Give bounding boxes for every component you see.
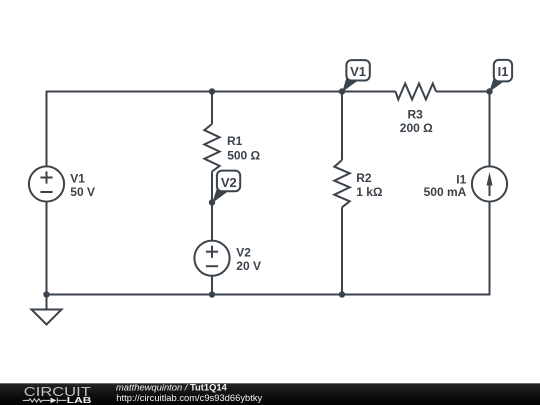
svg-text:20 V: 20 V <box>236 259 261 273</box>
footer credit text <box>116 381 263 403</box>
footer bar <box>0 383 540 405</box>
junction node V2 flag <box>209 199 215 205</box>
svg-text:V2: V2 <box>221 175 237 190</box>
svg-text:50 V: 50 V <box>70 185 95 199</box>
svg-text:500 Ω: 500 Ω <box>227 148 260 162</box>
svg-text:matthewquinton / Tut1Q14: matthewquinton / Tut1Q14 <box>116 381 228 392</box>
svg-text:LAB: LAB <box>67 396 92 405</box>
svg-text:1 kΩ: 1 kΩ <box>356 185 383 199</box>
wire left rail lower <box>46 202 48 295</box>
svg-text:500 mA: 500 mA <box>424 185 467 199</box>
svg-text:R2: R2 <box>356 171 372 185</box>
junction node top R2 / flag V1 <box>339 88 345 94</box>
voltage source V2 <box>194 241 229 276</box>
svg-text:V1: V1 <box>350 64 366 79</box>
svg-text:I1: I1 <box>498 64 509 79</box>
wire middle rail upper <box>211 92 213 125</box>
junction node bottom left ground <box>43 291 49 297</box>
svg-text:R1: R1 <box>227 134 243 148</box>
voltage source V1 <box>29 166 64 201</box>
ground <box>32 295 62 325</box>
svg-text:200 Ω: 200 Ω <box>400 121 433 135</box>
wire right rail lower and bottom rail <box>47 202 490 295</box>
svg-text:V2: V2 <box>236 246 251 260</box>
junction node top middle <box>209 88 215 94</box>
svg-text:V1: V1 <box>70 172 85 186</box>
junction node bottom R2 <box>339 291 345 297</box>
node flag V2 <box>212 171 240 203</box>
wire middle rail lower <box>211 276 213 295</box>
wire R2 rail lower <box>341 207 343 294</box>
junction node top right / flag I1 <box>486 88 492 94</box>
svg-text:http://circuitlab.com/c9s93d66: http://circuitlab.com/c9s93d66ybtky <box>116 392 262 403</box>
wire top rail <box>47 92 396 167</box>
resistor R1 <box>204 124 219 172</box>
wire top right segment <box>436 92 490 167</box>
current source I1 <box>472 166 507 201</box>
CircuitLab logo <box>23 384 92 405</box>
node flag V1 <box>342 60 370 92</box>
wire R2 rail upper <box>341 92 343 161</box>
svg-text:R3: R3 <box>408 107 424 121</box>
wire middle rail mid <box>211 172 213 203</box>
junction node bottom middle <box>209 291 215 297</box>
resistor R3 <box>396 84 437 100</box>
node flag I1 <box>489 60 512 92</box>
resistor R2 <box>334 160 349 207</box>
wire middle rail to V2 <box>211 203 213 241</box>
